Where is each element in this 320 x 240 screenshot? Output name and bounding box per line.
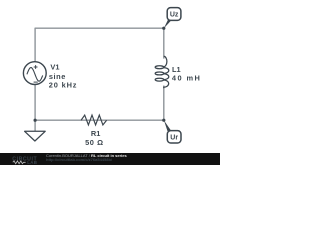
svg-text:Ur: Ur [170,134,178,141]
svg-text:20 kHz: 20 kHz [49,81,78,90]
svg-text:http://circuitlab.com/c/z76a54: http://circuitlab.com/c/z76a54458b/ [46,157,113,162]
svg-text:R1: R1 [91,129,100,138]
svg-text:LAB: LAB [27,160,37,165]
svg-text:40 mH: 40 mH [172,74,201,83]
svg-text:sine: sine [49,72,66,81]
svg-text:Uz: Uz [170,12,179,19]
svg-text:V1: V1 [50,62,59,71]
svg-text:L1: L1 [172,65,181,74]
svg-text:50 Ω: 50 Ω [85,138,104,147]
